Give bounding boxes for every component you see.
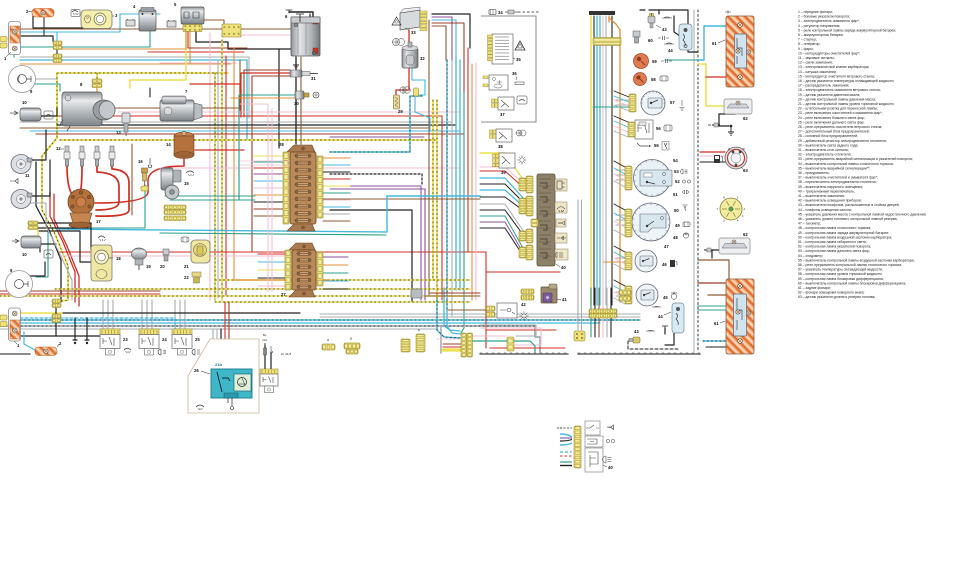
washer icon near 10 bottom [44, 250, 53, 258]
svg-text:18: 18 [116, 256, 121, 261]
svg-text:22: 22 [184, 275, 189, 280]
speedometer 54 [634, 158, 681, 197]
connector block near 5 [222, 24, 241, 37]
switch 37 [492, 97, 515, 117]
svg-text:42: 42 [521, 302, 526, 307]
yellow connector strip right harness [593, 38, 621, 46]
fuel gauge 46 [635, 250, 667, 272]
oil gauge 45 [636, 284, 668, 306]
wire stubs feeding fuse boxes 27/28 [254, 155, 283, 157]
dome icon near 43 top [662, 17, 672, 18]
icons near 48-50 [683, 205, 691, 238]
svg-text:47: 47 [664, 244, 669, 249]
wire harness: stop/reverse switch wires [241, 73, 290, 117]
small connector near 42 [507, 337, 514, 351]
switch 55 [637, 143, 659, 148]
voltage regulator 4 [133, 4, 156, 31]
tail light 61 (bottom) [714, 279, 754, 354]
svg-text:10: 10 [22, 252, 27, 257]
svg-text:25 – реле включения дальнего с: 25 – реле включения дальнего света фар; [798, 120, 864, 124]
wire harness: teal and cyan long runs [36, 185, 145, 277]
icon near 56 [664, 125, 672, 131]
svg-text:Кч 41-8: Кч 41-8 [281, 352, 291, 356]
svg-text:31: 31 [311, 76, 316, 81]
connector strip near 45 [625, 286, 632, 304]
ignition switch inset (bottom, 40) [574, 421, 613, 472]
connector strip near 54 [625, 166, 632, 190]
battery 6 [285, 14, 320, 56]
icon near relay 25 [192, 349, 200, 355]
wire harness: washer pump feeds [38, 227, 91, 229]
wire harness: license lamp bottom wire [712, 250, 719, 258]
svg-text:12 – свечи зажигания;: 12 – свечи зажигания; [798, 61, 833, 65]
svg-text:15 – моторедуктор очистителя в: 15 – моторедуктор очистителя ветрового с… [798, 74, 875, 78]
icon near 37 [517, 96, 527, 104]
svg-text:59 – контрольная лампа блокиро: 59 – контрольная лампа блокировки диффер… [798, 277, 884, 281]
temp sensor 16 [138, 159, 148, 186]
tachometer 47 [632, 203, 680, 249]
light switch 39 [493, 153, 516, 175]
svg-text:62 – фонари освещения номерног: 62 – фонари освещения номерного знака; [798, 291, 864, 295]
icon near 46 [670, 260, 677, 267]
svg-text:45: 45 [663, 295, 668, 300]
svg-text:32 – электродвигатель отопител: 32 – электродвигатель отопителя; [798, 153, 851, 157]
wiper relay 26 housing outline [188, 339, 259, 413]
svg-text:29 – добавочный резистор элект: 29 – добавочный резистор электродвигател… [798, 139, 887, 143]
svg-text:32: 32 [420, 56, 425, 61]
svg-text:41: 41 [562, 297, 567, 302]
svg-text:61: 61 [714, 321, 719, 326]
side turn signal 2 (top) [26, 9, 54, 18]
svg-text:25: 25 [195, 337, 200, 342]
fuel pump icon near 63 [714, 155, 723, 163]
relay 25 [9, 7, 755, 472]
connector near generator [92, 79, 102, 83]
svg-text:49: 49 [675, 223, 680, 228]
svg-text:57 – указатель температуры охл: 57 – указатель температуры охлаждающей ж… [798, 268, 883, 272]
fan icon near 29 [400, 87, 410, 93]
wire harness: top-left engine bay horizontal runs [20, 14, 160, 32]
svg-text:21: 21 [184, 264, 189, 269]
svg-text:56 – реле-прерыватель контроль: 56 – реле-прерыватель контрольной лампы … [798, 263, 902, 267]
svg-text:16: 16 [138, 159, 143, 164]
fan icon near 32 [393, 39, 405, 46]
svg-text:28: 28 [279, 142, 284, 147]
svg-text:63 – датчик указателя уровня и: 63 – датчик указателя уровня и резерва т… [798, 295, 876, 299]
wire harness: mid column verticals x420-480 [420, 186, 422, 300]
free connector pair right [461, 333, 467, 357]
distributor 17 [68, 189, 101, 228]
legend text block [798, 10, 926, 299]
svg-text:51 – контрольная лампа габарит: 51 – контрольная лампа габаритного света… [798, 240, 867, 244]
icons near 51-53 [681, 169, 691, 194]
license lamp 62 (bottom) [719, 232, 750, 254]
svg-text:46: 46 [662, 262, 667, 267]
steering column switch 40 (main block) [537, 174, 566, 270]
sensor 13 below generator [116, 113, 130, 136]
svg-text:б: б [350, 337, 352, 341]
icon near 45 [671, 292, 677, 300]
svg-text:55 – выключатель контрольной л: 55 – выключатель контрольной лампы возду… [798, 258, 915, 262]
washer icon near 18 [98, 236, 106, 241]
oil lamp sensor 20 [160, 249, 169, 269]
wire harness: coil and sensors to middle [60, 251, 486, 253]
svg-text:38: 38 [498, 144, 503, 149]
svg-text:36 – прикуриватель;: 36 – прикуриватель; [798, 171, 830, 175]
svg-text:24: 24 [162, 337, 167, 342]
warning lamp 59 [634, 54, 658, 69]
svg-text:5 – реле контрольной лампы зар: 5 – реле контрольной лампы заряда аккуму… [798, 28, 896, 32]
svg-text:54: 54 [673, 158, 678, 163]
wire harness: bottom right tail light feeds [698, 282, 726, 284]
license lamp 62 (top) [724, 99, 752, 121]
side turn signal 2 (bottom) [35, 341, 62, 356]
svg-text:53 – контрольная лампа дальнег: 53 – контрольная лампа дальнего света фа… [798, 249, 870, 253]
thermometer icon near 16 [148, 158, 152, 168]
svg-text:7 – стартер;: 7 – стартер; [798, 38, 817, 42]
plug near 62 top [708, 123, 720, 127]
svg-text:20: 20 [160, 264, 165, 269]
wide connector strip (lower right) [589, 309, 617, 314]
dome lamp 44 (bottom) [658, 303, 684, 333]
wire harness: top bar right section [589, 11, 615, 15]
relay 24 [0, 7, 926, 472]
wire harness: horizontal runs y150-212 middle [330, 96, 422, 152]
instrument light switch 42 [486, 302, 526, 318]
svg-text:50 – контрольная лампа воздушн: 50 – контрольная лампа воздушной заслонк… [798, 235, 892, 239]
svg-text:30 – выключатель света заднего: 30 – выключатель света заднего хода; [798, 143, 858, 147]
wire harness: red bundle down-left to lamps [50, 192, 75, 302]
svg-text:19: 19 [146, 264, 151, 269]
connector strip near 57 [629, 94, 636, 112]
svg-text:40 – трехрычажный переключател: 40 – трехрычажный переключатель; [798, 189, 855, 193]
svg-text:26: 26 [194, 368, 199, 373]
edge connectors far left [0, 37, 7, 327]
svg-text:Д: Д [728, 147, 730, 151]
svg-text:40: 40 [561, 265, 566, 270]
svg-text:24 – реле включения ближнего с: 24 – реле включения ближнего света фар; [798, 116, 865, 120]
washer pump 10 (bottom) [12, 236, 41, 257]
wire harness: relay area verticals and feeds [102, 300, 104, 329]
svg-text:22 – штепсельная розетка для п: 22 – штепсельная розетка для переносной … [798, 107, 878, 111]
svg-text:11 – звуковые сигналы;: 11 – звуковые сигналы; [798, 56, 835, 60]
svg-text:51: 51 [673, 192, 678, 197]
svg-text:12: 12 [56, 146, 61, 151]
svg-text:43: 43 [634, 329, 639, 334]
washer icon near 10 [44, 111, 53, 119]
aux fuse box 27 [289, 243, 316, 297]
svg-text:37 – выключатель очистителей и: 37 – выключатель очистителей и омывателя… [798, 176, 878, 180]
reverse light switch 30 [294, 91, 319, 106]
pink harness outline near fuse boxes [267, 104, 269, 292]
svg-text:46 – указатель уровня топлива: 46 – указатель уровня топлива с контроль… [798, 217, 897, 221]
connector pair near lamp1 [53, 41, 62, 45]
starter 7 [160, 89, 202, 121]
wire harness: right column wires to tail lights [698, 26, 726, 60]
icon near 21 [181, 237, 189, 242]
horn 11 (upper) [11, 155, 32, 179]
relay 56 [628, 120, 661, 139]
svg-text:13 – электромагнитный клапан к: 13 – электромагнитный клапан карбюратора… [798, 65, 869, 69]
dome lamp 44 (top) [668, 24, 692, 53]
svg-text:26 – реле-прерыватель очистите: 26 – реле-прерыватель очистителя ветрово… [798, 125, 882, 129]
svg-text:60 – выключатель контрольной л: 60 – выключатель контрольной лампы блоки… [798, 281, 906, 285]
svg-text:48: 48 [673, 235, 678, 240]
wire harness: comp42 and 41 wires [448, 309, 489, 311]
svg-text:34 – выключатель контрольной л: 34 – выключатель контрольной лампы стоян… [798, 162, 894, 166]
svg-text:14 – катушка зажигания;: 14 – катушка зажигания; [798, 70, 837, 74]
icon near relay 24 [158, 349, 166, 355]
free connector v1 [401, 339, 410, 352]
warning lamp 58 [634, 73, 657, 86]
svg-text:61: 61 [712, 41, 717, 46]
wire harness: bottom frame floor line [480, 353, 568, 355]
svg-text:19 – датчик указателя давления: 19 – датчик указателя давления масла; [798, 93, 860, 97]
svg-text:тяга: тяга [262, 339, 267, 342]
component layer placeholder [0, 2, 926, 472]
fuel sender 63 [725, 147, 748, 173]
wire harness: heater motor area [396, 68, 409, 95]
svg-text:63: 63 [743, 168, 748, 173]
door switch 43 (bottom) [629, 329, 640, 343]
sub-panel frame 35-37 [481, 16, 536, 122]
connector groups left of 40 [526, 176, 533, 193]
svg-text:33 – реле-прерыватель аварийно: 33 – реле-прерыватель аварийной сигнализ… [798, 157, 913, 161]
svg-text:8 – генератор;: 8 – генератор; [798, 42, 820, 46]
svg-text:10: 10 [22, 100, 27, 105]
svg-text:1 – передние фонари;: 1 – передние фонари; [798, 10, 833, 14]
wire harness: divider dashed line right [693, 10, 695, 352]
battery icon near 5 [167, 20, 176, 27]
svg-text:35: 35 [516, 57, 521, 62]
red instrument lamp wires right section [485, 252, 487, 348]
washer icon near 3 [71, 10, 80, 17]
connector strip near 46 [625, 252, 632, 270]
icon near 57 [680, 100, 685, 111]
svg-text:58 – контрольная лампа уровня: 58 – контрольная лампа уровня тормозной … [798, 272, 882, 276]
triangle icon near 33 [392, 17, 401, 25]
washer pump 18 [91, 245, 121, 281]
svg-text:39: 39 [501, 170, 506, 175]
svg-text:42 – выключатель освещения при: 42 – выключатель освещения приборов; [798, 199, 862, 203]
ground at 44 bottom [662, 326, 668, 334]
svg-text:27 – дополнительный блок предо: 27 – дополнительный блок предохранителей… [798, 130, 870, 134]
wire harness: left headlight feeds [35, 78, 57, 80]
wire harness: comp33 wires right [432, 14, 470, 48]
svg-text:28 – основной блок предохранит: 28 – основной блок предохранителей; [798, 134, 858, 138]
washer motor 3 (yellow box) [81, 10, 118, 29]
connectors near wiper motor 15 [164, 205, 186, 210]
gray cable pair left of instrument section [577, 200, 579, 330]
wire harness: spark plug red wires and distributor [67, 166, 74, 197]
svg-text:50: 50 [674, 208, 679, 213]
svg-text:43: 43 [662, 27, 667, 32]
svg-text:17: 17 [96, 219, 101, 224]
lamp cluster 1 (top front lamp) [4, 22, 21, 62]
tail light 61 (top) [712, 11, 754, 88]
dome icon near 44 top [664, 43, 674, 44]
wiper icon near 15 [186, 171, 194, 176]
svg-text:44: 44 [658, 314, 663, 319]
connector strip top right lower [619, 290, 631, 295]
heater resistor 29 [394, 95, 404, 114]
free connector b [344, 343, 360, 349]
free connector a [322, 344, 335, 350]
svg-text:15: 15 [184, 181, 189, 186]
wire harness: left vertical bundle x210-238 [217, 60, 219, 298]
wiper relay 26 [194, 362, 252, 410]
ignition switch 41 [521, 284, 567, 303]
horn icon near 11 [10, 179, 18, 184]
svg-text:31 – выключатель стоп-сигнала;: 31 – выключатель стоп-сигнала; [798, 148, 849, 152]
heater motor 32 [402, 42, 425, 68]
svg-text:2 – боковые указатели поворота: 2 – боковые указатели поворота; [798, 15, 850, 19]
portable lamp socket 22 [184, 272, 201, 283]
wire harness: middle free connector stubs [234, 279, 330, 281]
wire layer placeholder [0, 10, 735, 369]
connector near comp16 [141, 186, 148, 191]
connector strip near 47 [625, 209, 632, 237]
svg-text:52 – контрольная лампа указате: 52 – контрольная лампа указателей поворо… [798, 245, 871, 249]
main fuse box 28 [287, 145, 316, 231]
wire harness: comp43/44 top frame [649, 10, 688, 40]
switch 60 [633, 31, 653, 43]
svg-text:16 – датчик указателя температ: 16 – датчик указателя температуры охлажд… [798, 79, 894, 83]
wires from harness to gauge connectors [614, 91, 629, 97]
wires feeding steering column switch 40 [480, 153, 524, 181]
fan icon near 38 [516, 130, 526, 136]
svg-text:в: в [418, 328, 420, 332]
svg-text:53: 53 [674, 169, 679, 174]
icon near 59 [661, 59, 672, 63]
ignition relay (near 26) [260, 333, 291, 393]
wire harness: lower middle connector area [444, 288, 460, 331]
svg-text:38 – переключатель электродвиг: 38 – переключатель электродвигателя отоп… [798, 180, 877, 184]
dome icon near 44 bottom [652, 305, 661, 308]
svg-text:55: 55 [654, 143, 659, 148]
turn signal relay 33 [400, 7, 427, 35]
svg-text:62: 62 [743, 232, 748, 237]
wire harness: comp43 bottom wire [628, 340, 680, 349]
sun icon near 42 [519, 311, 528, 320]
spark plugs 12 (row of four) [0, 7, 926, 472]
svg-text:43 – выключатели плафонов, рас: 43 – выключатели плафонов, расположенные… [798, 203, 899, 207]
svg-text:6 – аккумуляторная батарея;: 6 – аккумуляторная батарея; [798, 33, 844, 37]
svg-text:44: 44 [668, 48, 673, 53]
oil pressure sensor 19 [132, 248, 152, 270]
svg-text:54 – спидометр;: 54 – спидометр; [798, 254, 823, 258]
icon near relay 23 [124, 348, 131, 353]
washer motor 10 (top) [10, 100, 41, 121]
connector near washer pump [28, 221, 38, 225]
svg-text:4 – регулятор напряжения;: 4 – регулятор напряжения; [798, 24, 840, 28]
icon near 60 [658, 36, 669, 40]
dome icon near 43 bottom [646, 329, 655, 332]
svg-text:36: 36 [512, 71, 517, 76]
hazard switch 35 [488, 34, 522, 64]
svg-text:23: 23 [123, 337, 128, 342]
wire harness: lower yellow-dash rows [215, 279, 470, 281]
wire harness: to wiper relay 26 [212, 329, 214, 369]
free connector v2 [416, 334, 425, 352]
relay 23 [0, 7, 926, 472]
wire harness: ignition relay feeds [264, 345, 266, 369]
svg-text:45 – указатель давления масла: 45 – указатель давления масла с контроль… [798, 212, 926, 216]
svg-text:49 – контрольная лампа заряда: 49 – контрольная лампа заряда аккумулято… [798, 231, 889, 235]
svg-text:18 – электродвигатель омывател: 18 – электродвигатель омывателя ветровог… [798, 88, 881, 92]
sun icon near 39 [517, 155, 526, 164]
wire harness: right lower bundle to connector strip [590, 288, 592, 309]
svg-text:а: а [327, 338, 329, 342]
ground symbol near battery [293, 60, 299, 68]
small connector at end of purple bundle [411, 289, 422, 298]
svg-text:14: 14 [166, 142, 171, 147]
svg-text:9 – фары;: 9 – фары; [798, 47, 814, 51]
stop light switch 31 [290, 70, 318, 81]
svg-text:3 – электродвигатель омывателя: 3 – электродвигатель омывателя фар*; [798, 19, 860, 23]
svg-text:40: 40 [608, 465, 613, 470]
small connector near heater motor [414, 88, 419, 96]
svg-text:56: 56 [656, 126, 661, 131]
svg-text:20 – датчик контрольной лампы: 20 – датчик контрольной лампы давления м… [798, 97, 876, 101]
svg-text:52: 52 [675, 179, 680, 184]
temp gauge 57 [641, 91, 675, 115]
wire harness: yellow-dashed main loop left [57, 72, 228, 74]
svg-text:11: 11 [25, 173, 30, 178]
lamp cluster 1 (bottom front lamp) [9, 308, 21, 348]
relay 5 (charge lamp relay) [174, 2, 204, 32]
cigarette lighter 36 [483, 71, 517, 90]
wire harness: gray/cyan lower rows [320, 313, 640, 315]
svg-text:39 – выключатель наружного осв: 39 – выключатель наружного освещения; [798, 185, 863, 189]
door switch 43 (top) [648, 13, 667, 32]
instrument connector 64 (round) [717, 195, 746, 222]
wire harness: mid horizontal bundle y115-142 [36, 115, 442, 117]
inset feed wires [557, 428, 572, 466]
svg-text:47 – тахометр;: 47 – тахометр; [798, 222, 821, 226]
icon near 58 [660, 76, 668, 81]
brake fluid sensor 21 [184, 240, 210, 269]
headlight 9 (top) [9, 66, 36, 95]
svg-text:35 – выключатель аварийной сиг: 35 – выключатель аварийной сигнализации*… [798, 166, 870, 170]
svg-text:27: 27 [281, 292, 286, 297]
wire harness: horn feeds [30, 130, 46, 160]
wire harness: right mid bundle into instrument panel x590-616 [590, 16, 592, 305]
connector left lamp bottom [52, 299, 61, 303]
svg-text:58: 58 [651, 77, 656, 82]
svg-text:В+: В+ [263, 333, 267, 337]
wire harness: gauge feeds [616, 99, 628, 101]
wiper motor 15 [161, 168, 189, 199]
wiper icon near 26 [196, 405, 204, 410]
svg-text:60: 60 [648, 38, 653, 43]
svg-text:33: 33 [411, 30, 416, 35]
svg-text:48 – контрольная лампа стояноч: 48 – контрольная лампа стояночного тормо… [798, 226, 871, 230]
headlight 9 (bottom) [6, 268, 33, 298]
svg-text:17 – распределитель зажигания;: 17 – распределитель зажигания; [798, 84, 849, 88]
wire harness: generator/starter area [96, 85, 98, 105]
wire harness: brown vertical from battery [131, 144, 133, 215]
generator 8 [59, 82, 115, 131]
cigarette icon near 36 [515, 77, 524, 85]
svg-text:23 – реле включения очистителе: 23 – реле включения очистителей и омыват… [798, 111, 883, 115]
svg-text:37: 37 [500, 112, 505, 117]
wire harness: fuel sender wires [700, 151, 725, 153]
ignition coil 14 [166, 132, 194, 159]
ground stubs near relays [73, 339, 77, 341]
ground symbol comp62 top [728, 127, 734, 135]
svg-text:62: 62 [743, 116, 748, 121]
